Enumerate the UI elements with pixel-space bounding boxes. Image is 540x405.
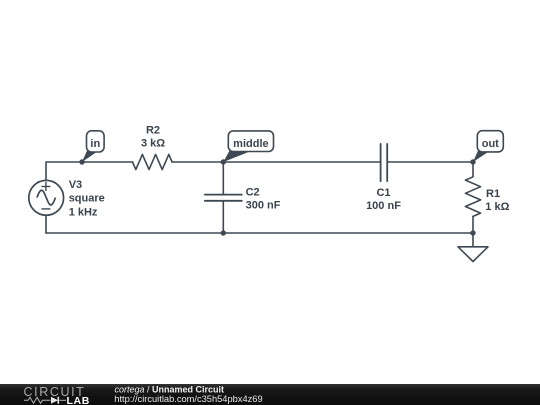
svg-text:300 nF: 300 nF — [246, 199, 281, 211]
node dot out — [470, 159, 475, 164]
svg-text:1 kHz: 1 kHz — [69, 207, 98, 219]
svg-text:out: out — [482, 138, 499, 150]
capacitor C2 — [205, 195, 242, 201]
label C2 — [246, 186, 281, 211]
node dot C2 bottom — [221, 230, 226, 235]
label R2 — [141, 124, 165, 149]
label R1 — [485, 188, 509, 213]
wire bottom node to ground — [472, 233, 474, 247]
svg-text:in: in — [90, 138, 100, 150]
ground — [458, 247, 488, 262]
svg-text:3 kΩ: 3 kΩ — [141, 137, 165, 149]
bottom wire — [46, 232, 473, 234]
svg-text:R1: R1 — [486, 188, 500, 200]
svg-text:middle: middle — [233, 138, 268, 150]
svg-text:C1: C1 — [376, 187, 390, 199]
svg-text:V3: V3 — [69, 179, 82, 191]
node dot R1 bottom — [470, 230, 475, 235]
node dot middle — [221, 159, 226, 164]
wire top left corner to R2 — [46, 162, 133, 181]
wire C1 right plate to out node — [388, 161, 473, 163]
wire C2 node down to C2 top plate — [222, 162, 224, 194]
voltage source V3 — [29, 180, 64, 215]
wire R1 to bottom — [472, 216, 474, 233]
wire C2 bottom plate to bottom wire — [222, 201, 224, 233]
wire out node down to R1 — [472, 162, 474, 177]
node dot in — [79, 159, 84, 164]
svg-text:R2: R2 — [146, 124, 160, 136]
svg-text:100 nF: 100 nF — [366, 200, 401, 212]
flag middle — [223, 131, 273, 162]
flag out — [473, 131, 503, 162]
wire source bottom to bottom wire — [45, 215, 47, 233]
svg-text:1 kΩ: 1 kΩ — [485, 201, 509, 213]
resistor R1 — [465, 177, 480, 217]
resistor R2 — [133, 154, 173, 169]
label C1 — [366, 187, 401, 212]
logo squiggle and diode — [24, 397, 66, 403]
label V3 — [69, 179, 105, 219]
wire R2 to C1 left plate — [172, 161, 380, 163]
flag in — [82, 131, 104, 162]
svg-text:http://circuitlab.com/c35h54pb: http://circuitlab.com/c35h54pbx4z69 — [114, 394, 262, 404]
svg-text:square: square — [69, 192, 105, 204]
capacitor C1 — [381, 144, 388, 181]
svg-text:LAB: LAB — [67, 395, 90, 405]
svg-text:C2: C2 — [246, 186, 260, 198]
